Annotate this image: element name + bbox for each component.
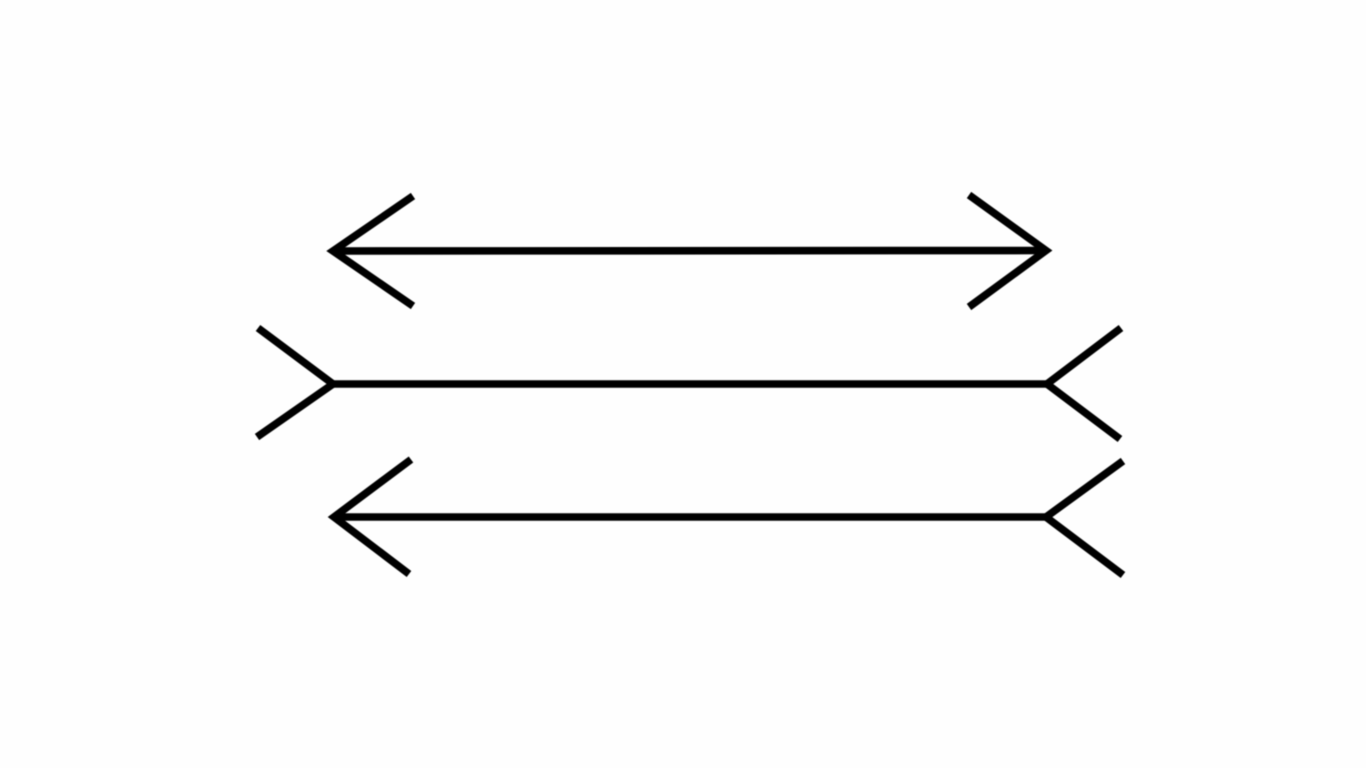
middle line: shaft: [333, 380, 1047, 388]
bottom arrow: shaft: [334, 513, 1046, 521]
top arrow: right head (wings in, pointing right): [969, 195, 1046, 307]
top arrow: left head (wings in, pointing left): [333, 196, 413, 306]
middle line: right fins (wings out): [1047, 328, 1121, 439]
bottom arrow: right fins (wings out): [1046, 461, 1123, 575]
bottom arrow: left head (wings in, pointing left): [334, 460, 411, 575]
top arrow: shaft: [333, 247, 1046, 255]
middle line: left fins (wings out): [257, 328, 333, 437]
